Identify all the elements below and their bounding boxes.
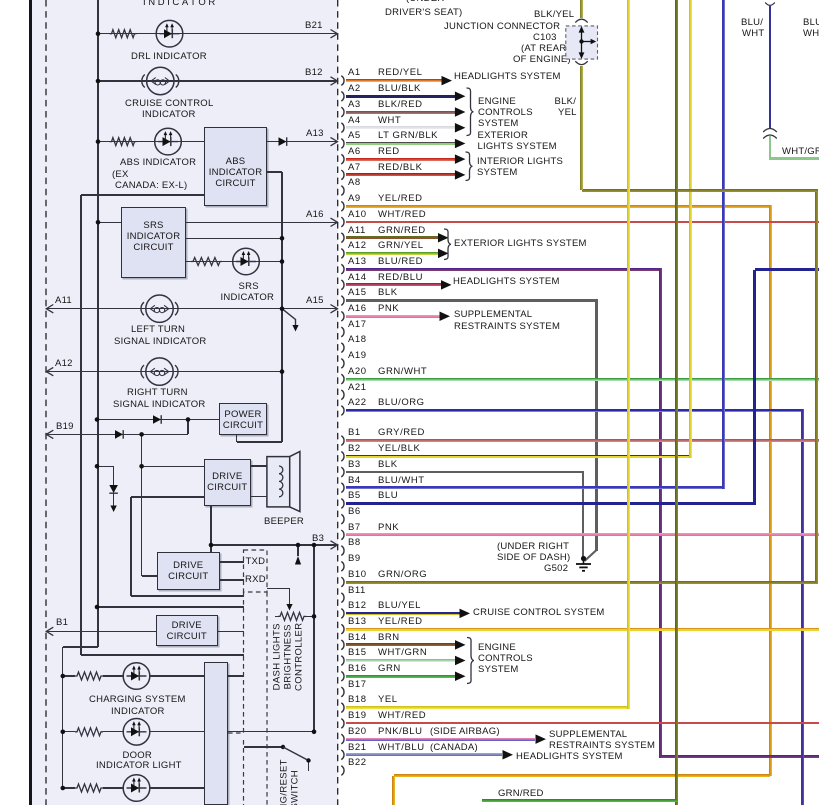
label: ABS INDICATOR xyxy=(120,158,196,168)
label: DRIVER'S SEAT) xyxy=(385,8,462,18)
label: SUPPLEMENTAL xyxy=(549,730,627,740)
wire A15 BLK horizontal xyxy=(346,299,598,301)
junction dot (97,466.3) xyxy=(95,464,100,469)
label: INDICATOR LIGHT xyxy=(96,761,182,771)
SRS indicator circuit block U-SRS xyxy=(121,207,186,278)
wire B16 GRN xyxy=(346,675,455,678)
wire: charging row exit xyxy=(228,675,244,676)
drive circuit block 2 (serial) xyxy=(157,552,220,590)
junction dot (97,607) xyxy=(95,605,100,610)
wire: power row link 188 xyxy=(187,420,188,435)
wire: rail to controller xyxy=(97,606,244,607)
brace engine controls A2-A4 xyxy=(467,88,474,136)
wire: drive1 to beeper top xyxy=(251,465,279,466)
A15 tap arrow xyxy=(282,309,296,326)
ABS indicator circuit block U-ABS xyxy=(204,127,267,206)
label: LEFT TURN xyxy=(131,325,185,335)
wire olive vertical 676 xyxy=(675,0,678,805)
junction dot (98,81.0) xyxy=(96,79,101,84)
label: B11 xyxy=(348,586,366,596)
label: A4 xyxy=(348,116,361,126)
label: ENGINE xyxy=(478,97,516,107)
arrow A11 xyxy=(438,233,449,243)
label: A7 xyxy=(348,163,361,173)
label: WHT/RED xyxy=(378,210,426,220)
label: (UNDER RIGHT xyxy=(497,542,569,552)
arrow B15 xyxy=(455,656,466,666)
label: SYSTEM xyxy=(478,665,519,675)
junction dot (62.8,676.0) xyxy=(61,674,66,679)
wire A13 BLU/RED lower horizontal to right edge xyxy=(661,755,819,758)
junction dot (98,222.3) xyxy=(96,220,101,225)
chevron arrow to pin B3 xyxy=(331,541,338,549)
wire: drive3 to controller xyxy=(218,631,244,632)
wire A10 WHT/RED xyxy=(346,221,819,223)
LED SRS indicator xyxy=(233,248,260,275)
wire: left turn row (A11 to A15) xyxy=(46,308,336,309)
junction connector C103 xyxy=(566,19,598,64)
label: A14 xyxy=(348,273,367,283)
wire: drive1 input row A xyxy=(97,466,114,467)
label: SRS xyxy=(239,282,259,292)
label: INTERIOR LIGHTS xyxy=(477,157,563,167)
label: B14 xyxy=(348,633,367,643)
label: GRN/YEL xyxy=(378,241,424,251)
label: SYSTEM xyxy=(477,168,518,178)
label: SIGNAL INDICATOR xyxy=(114,337,207,347)
label: HEADLIGHTS SYSTEM xyxy=(516,752,623,762)
label: B9 xyxy=(348,554,361,564)
label: B7 xyxy=(348,523,361,533)
label: WHT/BLU xyxy=(378,743,425,753)
wire yellow vertical 628 upper xyxy=(627,0,630,708)
brace interior lights A6-A7 xyxy=(466,152,473,181)
label: GRN/RED xyxy=(378,226,426,236)
wire GRN/RED bottom xyxy=(482,799,677,802)
label: SIDE OF DASH) xyxy=(497,553,570,563)
label: A11 xyxy=(348,226,366,236)
label: (CANADA) xyxy=(430,743,478,753)
LED DRL indicator xyxy=(156,20,183,47)
label: BLU/ xyxy=(741,18,763,28)
label: A2 xyxy=(348,84,361,94)
label: OF ENGINE) xyxy=(513,55,571,65)
wire A22 BLU/ORG vertical to bottom xyxy=(801,409,804,805)
label: BLK/RED xyxy=(378,100,423,110)
TXD RXD dashed box xyxy=(244,550,268,592)
wire B3 BLK vertical to ground xyxy=(582,472,584,557)
wire WHT/GRN vertical xyxy=(769,136,772,160)
diode ABS to A13 xyxy=(279,137,287,146)
wire B18 YEL vertical to top xyxy=(627,0,630,709)
wire B3 BLK horizontal xyxy=(346,471,584,473)
label: EXTERIOR xyxy=(478,131,529,141)
label: BLU xyxy=(378,491,398,501)
label: B10 xyxy=(348,570,367,580)
label: ENGINE xyxy=(478,643,516,653)
label: YEL/RED xyxy=(378,617,423,627)
beeper speaker xyxy=(267,452,300,512)
label: B8 xyxy=(348,538,361,548)
wire A3 BLK/RED xyxy=(346,111,455,114)
label: BLU/WHT xyxy=(378,476,425,486)
wire: bus to controller at 655 xyxy=(81,654,244,655)
label: A1 xyxy=(348,68,361,78)
wire: ABS circuit right to inner rail xyxy=(267,171,282,172)
wire: ABS row left segment xyxy=(98,141,204,142)
wire: B1 exit to drive3 xyxy=(46,631,156,632)
label: RED/YEL xyxy=(378,68,423,78)
label: CRUISE CONTROL xyxy=(125,99,213,109)
lamp cruise control indicator xyxy=(142,67,179,94)
instrument cluster panel background xyxy=(31,0,338,805)
B3 tap arrow xyxy=(295,556,301,565)
dimmer controller dashed line right xyxy=(266,592,268,805)
junction dot (211,545.0) xyxy=(209,543,214,548)
chevron arrow to pin A16 xyxy=(331,218,338,226)
wire: power box bottom drop xyxy=(236,435,237,443)
label: BLU/ORG xyxy=(378,398,425,408)
ground G502 xyxy=(576,556,591,571)
junction dot (98,141.6) xyxy=(96,139,101,144)
wire B15 WHT/GRN xyxy=(346,659,455,662)
wire A13 BLU/RED horizontal xyxy=(346,268,662,271)
label: B22 xyxy=(348,758,367,768)
wire B10/BLK-YEL vertical right edge xyxy=(815,189,818,582)
label: B21 xyxy=(305,21,323,31)
wire B5 BLU upper horizontal to right edge xyxy=(755,268,819,271)
wire A15 BLK vertical xyxy=(595,301,597,551)
label: INDICATOR xyxy=(143,0,218,8)
wire: ABS circuit left edge to left rail xyxy=(81,194,204,195)
wire: top indicator row to pin B21 xyxy=(98,33,336,34)
label: A15 xyxy=(348,288,367,298)
arrow A16 to SRS system xyxy=(440,312,451,322)
rail: drive1 aux vertical 131 xyxy=(130,497,131,596)
drive circuit block 1 (beeper) xyxy=(204,459,251,506)
wire: switch left lead xyxy=(244,746,284,747)
wire: clamp diode drop 113 xyxy=(113,466,114,485)
label: RIGHT TURN xyxy=(127,388,188,398)
label: A3 xyxy=(348,100,361,110)
dimmer reset switch xyxy=(281,745,311,763)
wire: SRS indicator row xyxy=(186,261,282,262)
label: WHT xyxy=(378,116,401,126)
wire: drive1 input row B xyxy=(131,496,204,497)
label: PNK xyxy=(378,304,399,314)
wire A20 GRN/WHT xyxy=(346,378,819,381)
label: B12 xyxy=(348,601,367,611)
rotated label dimming/reset switch xyxy=(279,750,289,805)
wire A4 WHT xyxy=(346,126,455,129)
wire A22 BLU/ORG horizontal xyxy=(346,409,804,412)
page border line xyxy=(29,0,32,805)
label: BLK xyxy=(378,288,398,298)
drive circuit block 3 xyxy=(156,615,218,646)
wiper arrow onto brightness resistor xyxy=(286,604,292,611)
label: A11 xyxy=(55,296,72,306)
label: GRN/ORG xyxy=(378,570,427,580)
label: B20 xyxy=(348,727,367,737)
label: B17 xyxy=(348,680,367,690)
junction dot (97,419.5) xyxy=(95,417,100,422)
label: (SIDE AIRBAG) xyxy=(430,727,500,737)
wire: drive2 RXD line xyxy=(220,579,245,580)
label: A12 xyxy=(348,241,367,251)
arrow A3 xyxy=(455,107,466,117)
label: SUPPLEMENTAL xyxy=(454,310,532,320)
label: JUNCTION CONNECTOR xyxy=(444,22,560,32)
label: CONTROLS xyxy=(478,108,533,118)
LED ABS indicator xyxy=(155,128,182,155)
label: YEL/BLK xyxy=(378,444,420,454)
chevron arrow to pin A13 xyxy=(331,137,338,145)
label: RXD xyxy=(245,575,266,585)
label: RESTRAINTS SYSTEM xyxy=(454,322,560,332)
junction dot (282,308.7) xyxy=(280,306,285,311)
arrow A4 xyxy=(455,123,466,132)
label: (EX xyxy=(112,170,129,180)
wire A9 YEL/RED horizontal xyxy=(346,205,772,208)
label: BLK/YEL xyxy=(534,10,574,20)
label: A5 xyxy=(348,131,361,141)
wire: ABS circuit to pin A13 (diode segment) xyxy=(267,141,336,142)
label: (AT REAR xyxy=(521,44,566,54)
label: BLU/ xyxy=(803,18,819,28)
wire: third indicator row xyxy=(63,787,75,788)
junction dot (282,238.3) xyxy=(280,236,285,241)
wire A9 YEL/RED bottom drop xyxy=(392,776,395,805)
arrow B20 to SRS system xyxy=(536,734,547,744)
wire B2 YEL/BLK horizontal xyxy=(346,455,692,458)
label: A21 xyxy=(348,383,367,393)
label: B3 xyxy=(312,534,324,544)
wire: B3 stub xyxy=(297,545,298,556)
label: A17 xyxy=(348,320,367,330)
arrow A6 xyxy=(455,154,466,164)
label: LT GRN/BLK xyxy=(378,131,438,141)
wire: brightness resistor leads xyxy=(275,616,279,617)
label: BLK/ xyxy=(555,97,577,107)
wire B5 BLU horizontal xyxy=(346,502,756,505)
label: A16 xyxy=(348,304,367,314)
label: YEL/RED xyxy=(378,194,423,204)
junction dot (314,545.0) xyxy=(312,543,317,548)
junction dot (314,731.8) xyxy=(312,730,317,735)
wire A15 slant to ground xyxy=(585,550,597,561)
label: GRY/RED xyxy=(378,428,425,438)
rail: drive1 bottom to B3 row and drive2 xyxy=(210,506,211,553)
label: BEEPER xyxy=(264,517,304,527)
clamp diode end arrow xyxy=(110,506,116,513)
label: GRN/RED xyxy=(498,789,544,799)
wire B1 GRY/RED xyxy=(346,439,819,442)
label: A20 xyxy=(348,367,367,377)
arrow A12 xyxy=(438,249,449,259)
label: WHT xyxy=(742,29,764,39)
wire: drive1 to beeper bottom xyxy=(251,496,279,497)
wire: right turn row (A12 to rail) xyxy=(46,371,282,372)
chevron arrow exit B19 xyxy=(46,430,53,438)
label: B19 xyxy=(348,711,367,721)
label: RESTRAINTS SYSTEM xyxy=(549,741,655,751)
inline connector break on BLU/WHT wire xyxy=(763,129,777,133)
label: HEADLIGHTS SYSTEM xyxy=(453,277,560,287)
arrow A5 to exterior lights xyxy=(455,139,466,149)
label: B2 xyxy=(348,444,361,454)
label: A8 xyxy=(348,178,361,188)
label: CONTROLS xyxy=(478,654,533,664)
wire: RXD box to wiper arm xyxy=(267,588,290,589)
label: A9 xyxy=(348,194,361,204)
dashed stub at tall box xyxy=(228,732,244,734)
wire B18 YEL horizontal xyxy=(346,706,630,709)
arrow B16 xyxy=(455,672,466,682)
label: A13 xyxy=(306,129,324,139)
label: A16 xyxy=(306,210,324,220)
label: CANADA: EX-L) xyxy=(115,181,187,191)
wire B4 BLU/WHT horizontal xyxy=(346,486,725,489)
label: CHARGING SYSTEM xyxy=(89,695,186,705)
rail: B19 vertical 141 xyxy=(141,434,142,576)
arrow B21 to headlights system xyxy=(503,750,514,760)
wire WHT/GRN horizontal to right edge xyxy=(770,157,819,160)
wire A2 BLU/BLK xyxy=(346,95,455,98)
wire B14 BRN xyxy=(346,643,455,646)
label: RED/BLK xyxy=(378,163,423,173)
wire: charging indicator row xyxy=(63,675,75,676)
clamp diode xyxy=(109,485,118,493)
indicator driver block (tall) xyxy=(204,662,228,805)
label: BRN xyxy=(378,633,400,643)
wire: rail to drive2 xyxy=(142,575,157,576)
cluster dashed border left xyxy=(45,0,47,805)
chevron arrow to pin B12 xyxy=(331,77,338,85)
LED door indicator light xyxy=(123,719,150,746)
chevron arrow to pin A15 xyxy=(331,305,338,313)
cluster dashed border right (connector face) xyxy=(337,0,339,805)
wire: B19 exit row xyxy=(46,434,188,435)
wire: rail to SRS circuit input xyxy=(98,222,121,223)
arrow B12 to cruise control system xyxy=(460,609,471,619)
junction dot (282,261.5) xyxy=(280,259,285,264)
label: INDICATOR xyxy=(111,707,165,717)
wire A1 RED/YEL xyxy=(346,79,442,82)
label: B4 xyxy=(348,476,361,486)
wire A5 LT GRN/BLK xyxy=(346,142,455,145)
label: B19 xyxy=(56,422,74,432)
label: BLU/YEL xyxy=(378,601,421,611)
label: B5 xyxy=(348,491,361,501)
diode power circuit row xyxy=(153,415,161,424)
label: B1 xyxy=(56,618,68,628)
wire B21 WHT/BLU xyxy=(346,753,502,756)
wire BLU/WHT vertical top right xyxy=(769,6,772,128)
wire B7 PNK xyxy=(346,533,819,536)
wire A7 RED/BLK xyxy=(346,173,455,176)
wire BLK/YEL top stub xyxy=(580,0,583,18)
wire: door indicator row xyxy=(63,731,75,732)
wire B20 PNK/BLU xyxy=(346,738,535,741)
wire: door row exit to dimmer rail xyxy=(228,731,314,732)
lamp right turn signal indicator xyxy=(141,358,178,385)
label: LIGHTS SYSTEM xyxy=(478,142,557,152)
wire B2 YEL/BLK vertical to top xyxy=(689,0,692,458)
junction dot (141.6,434.4) xyxy=(139,432,144,437)
wire: cruise row to pin B12 xyxy=(98,80,336,81)
label: TXD xyxy=(246,557,266,567)
rotated label dash lights brightness controller xyxy=(272,607,282,707)
junction dot (314,616.4) xyxy=(312,614,317,619)
connector pin brackets A1-A22 xyxy=(341,76,344,416)
resistor charging row xyxy=(75,672,103,680)
label: B15 xyxy=(348,648,367,658)
resistor dash lights brightness controller xyxy=(278,612,306,620)
label: GRN xyxy=(378,664,401,674)
rail: bottom left vertical xyxy=(62,647,63,788)
chevron arrow exit B1 xyxy=(46,627,53,635)
resistor bottom row xyxy=(75,784,103,792)
label: DOOR xyxy=(123,751,153,761)
label: YEL xyxy=(378,695,398,705)
arrow A14 to headlights system xyxy=(441,280,452,290)
arrow B14 xyxy=(455,640,466,650)
brace exterior lights A11-A12 xyxy=(444,229,451,260)
dimmer controller dashed line left xyxy=(243,592,245,733)
label: BLK xyxy=(378,460,398,470)
label: INDICATOR xyxy=(142,110,196,120)
rail: main left vertical xyxy=(97,0,98,647)
label: SIGNAL INDICATOR xyxy=(113,400,206,410)
label: CRUISE CONTROL SYSTEM xyxy=(473,608,605,618)
label: B1 xyxy=(348,428,361,438)
resistor ABS row xyxy=(110,138,137,146)
label: WHT/GRN xyxy=(378,648,427,658)
chevron arrow exit A12 xyxy=(46,367,53,375)
arrow A7 xyxy=(455,170,466,180)
label: YEL xyxy=(558,108,577,118)
wire: SRS circuit output 2 to inner rail xyxy=(186,238,282,239)
label: RED xyxy=(378,147,400,157)
lamp left turn signal indicator xyxy=(141,295,178,322)
chevron arrow exit A11 xyxy=(46,305,53,313)
label: B6 xyxy=(348,507,361,517)
label: BLU/RED xyxy=(378,257,423,267)
label: INDICATOR xyxy=(221,293,275,303)
label: BLU/BLK xyxy=(378,84,421,94)
label: A12 xyxy=(55,359,73,369)
wire A16 PNK xyxy=(346,315,440,318)
label: WHT/GRN xyxy=(782,147,819,157)
LED charging system indicator xyxy=(123,663,150,690)
wire B13 YEL/RED xyxy=(346,628,819,631)
label: RED/BLU xyxy=(378,273,423,283)
wire BLK/YEL upper horizontal xyxy=(582,189,819,192)
junction dot (62.8,788.0) xyxy=(61,786,66,791)
wire B5 BLU vertical xyxy=(753,270,756,505)
label: PNK xyxy=(378,523,399,533)
resistor door row xyxy=(75,728,103,736)
connector arc top of BLU/WHT wire xyxy=(765,3,775,6)
wire BLK/YEL junction vertical xyxy=(580,66,583,190)
label: (UNDER xyxy=(406,0,444,4)
wire A12 GRN/YEL xyxy=(346,252,438,255)
label: A10 xyxy=(348,210,367,220)
label: SYSTEM xyxy=(478,119,519,129)
wire A9 YEL/RED vertical at 770 xyxy=(769,205,772,776)
junction dot (141.6,466.3) xyxy=(139,464,144,469)
wire B19 WHT/RED xyxy=(346,722,819,724)
